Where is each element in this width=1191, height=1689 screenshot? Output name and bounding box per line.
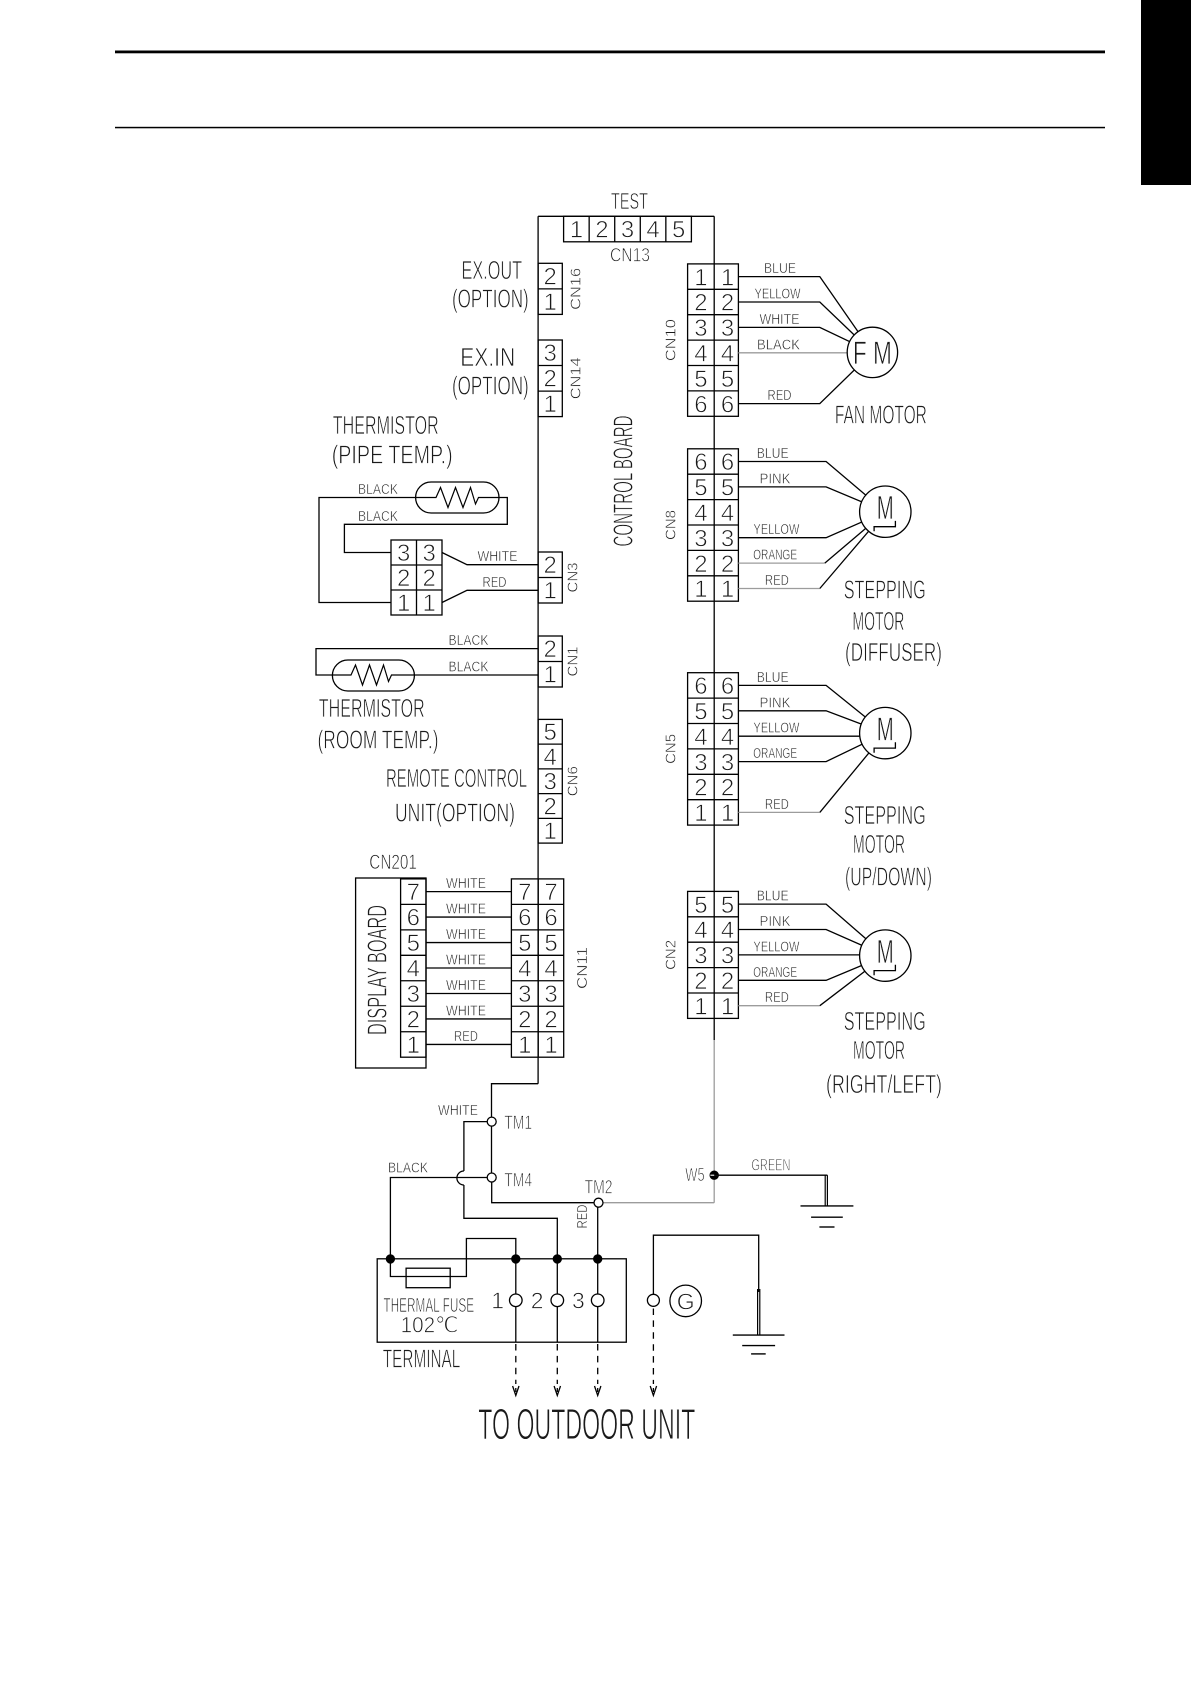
svg-text:2: 2: [531, 1288, 544, 1314]
svg-text:1: 1: [694, 576, 707, 603]
label TERMINAL: [383, 1344, 461, 1374]
svg-text:(RIGHT/LEFT): (RIGHT/LEFT): [826, 1069, 942, 1099]
svg-text:4: 4: [518, 956, 531, 983]
label CN8: [663, 510, 680, 540]
svg-text:CN11: CN11: [574, 947, 591, 989]
wire CN8 YELLOW: [738, 512, 885, 539]
label EX.OUT (OPTION): [452, 255, 529, 314]
svg-text:M: M: [877, 489, 894, 526]
svg-text:BLUE: BLUE: [757, 445, 789, 462]
chassis ground: [733, 1289, 785, 1354]
svg-text:2: 2: [694, 968, 707, 995]
wire TM1 to TM4: [491, 1126, 493, 1173]
svg-text:5: 5: [721, 892, 734, 919]
wire pipe thermistor BLACK lower: [344, 498, 507, 553]
svg-text:5: 5: [721, 699, 734, 726]
svg-text:5: 5: [694, 892, 707, 919]
svg-text:1: 1: [544, 289, 557, 316]
svg-text:3: 3: [407, 981, 420, 1008]
label CN2: [663, 940, 680, 970]
svg-text:WHITE: WHITE: [446, 926, 486, 943]
svg-text:BLACK: BLACK: [757, 336, 800, 353]
svg-text:5: 5: [544, 719, 557, 746]
svg-text:3: 3: [544, 340, 557, 367]
svg-text:5: 5: [721, 475, 734, 502]
wire CN5 ORANGE: [738, 733, 885, 762]
svg-text:1: 1: [721, 576, 734, 603]
terminal TM2: [585, 1178, 613, 1208]
connector CN10: [688, 264, 739, 418]
svg-text:TM4: TM4: [504, 1170, 532, 1191]
svg-text:3: 3: [721, 525, 734, 552]
label STEPPING MOTOR (UP/DOWN): [844, 800, 932, 892]
wire CN201-1 RED to CN11: [426, 1028, 511, 1045]
label CN6: [565, 766, 582, 796]
label CN14: [568, 357, 585, 399]
svg-text:2: 2: [694, 775, 707, 802]
svg-text:THERMISTOR: THERMISTOR: [319, 693, 425, 723]
wire thermal fuse loop: [390, 1239, 515, 1277]
wire CN201-6 WHITE to CN11: [426, 901, 511, 918]
wire BLACK to TM4 and terminal 1: [388, 1160, 487, 1259]
svg-text:4: 4: [407, 956, 420, 983]
label DISPLAY BOARD: [362, 905, 393, 1035]
svg-text:BLUE: BLUE: [757, 888, 789, 905]
svg-text:102℃: 102℃: [401, 1313, 459, 1338]
svg-text:TEST: TEST: [611, 188, 648, 214]
pipe thermistor plug connector: [391, 540, 442, 617]
wire WHITE plug to CN3-2: [442, 548, 538, 565]
label CN3: [565, 563, 582, 593]
svg-text:PINK: PINK: [760, 913, 791, 930]
wire ground post to chassis ground: [653, 1235, 758, 1294]
svg-text:WHITE: WHITE: [478, 548, 518, 565]
svg-text:2: 2: [544, 552, 557, 579]
svg-text:PINK: PINK: [760, 694, 791, 711]
svg-text:1: 1: [407, 1032, 420, 1059]
wire CN2 RED: [738, 956, 885, 1007]
svg-text:PINK: PINK: [760, 470, 791, 487]
ground (green wire): [801, 1175, 854, 1227]
svg-text:MOTOR: MOTOR: [853, 829, 905, 859]
svg-text:2: 2: [721, 968, 734, 995]
svg-text:BLACK: BLACK: [449, 659, 489, 676]
svg-text:3: 3: [694, 943, 707, 970]
terminal TM4: [487, 1170, 532, 1191]
label WHITE near TM1: [438, 1102, 478, 1119]
svg-text:STEPPING: STEPPING: [844, 575, 926, 605]
svg-text:6: 6: [518, 905, 531, 932]
svg-text:1: 1: [694, 264, 707, 291]
label EX.IN (OPTION): [452, 342, 529, 401]
svg-text:(DIFFUSER): (DIFFUSER): [845, 637, 942, 667]
wire CN2 ORANGE: [738, 956, 885, 981]
connector CN2: [688, 891, 739, 1020]
wire RED TM2 to terminal 3: [574, 1204, 598, 1259]
wire pipe thermistor BLACK upper: [319, 481, 416, 603]
svg-text:1: 1: [544, 662, 557, 689]
junction dot terminal L: [386, 1255, 394, 1263]
svg-text:RED: RED: [574, 1204, 591, 1228]
wire board to TM1: [492, 1084, 539, 1117]
svg-text:3: 3: [694, 749, 707, 776]
svg-text:YELLOW: YELLOW: [755, 286, 802, 303]
svg-text:STEPPING: STEPPING: [844, 1006, 926, 1036]
svg-text:(PIPE TEMP.): (PIPE TEMP.): [332, 440, 453, 470]
svg-text:4: 4: [694, 724, 707, 751]
svg-text:UNIT(OPTION): UNIT(OPTION): [395, 798, 515, 828]
stepping motor symbol near CN2: [860, 930, 911, 981]
label CONTROL BOARD: [608, 416, 639, 547]
connector CN5: [688, 673, 739, 827]
svg-text:3: 3: [397, 540, 410, 567]
label TO OUTDOOR UNIT: [478, 1400, 695, 1449]
stepping motor symbol near CN8: [860, 486, 911, 537]
wire CN5 RED: [738, 733, 885, 813]
svg-text:THERMISTOR: THERMISTOR: [333, 410, 439, 440]
svg-text:CN14: CN14: [568, 357, 585, 399]
svg-text:1: 1: [397, 590, 410, 617]
wire WHITE TM1 branch to terminal 2: [457, 1122, 557, 1259]
svg-text:6: 6: [694, 391, 707, 418]
stepping motor symbol near CN5: [860, 707, 911, 758]
junction dot terminal 3: [594, 1255, 602, 1263]
wire CN2 PINK: [738, 913, 885, 956]
wire CN10-1 BLUE to fan motor: [738, 260, 872, 352]
svg-text:CN2: CN2: [663, 940, 680, 970]
fan motor FM: [847, 327, 897, 377]
label THERMISTOR (PIPE TEMP.): [332, 410, 453, 470]
wire CN10-4 BLACK to fan motor (gray): [738, 336, 872, 353]
thermal fuse F1: [406, 1268, 450, 1288]
wire CN5 PINK: [738, 694, 885, 733]
label THERMAL FUSE 102C: [383, 1295, 474, 1338]
svg-text:3: 3: [544, 769, 557, 796]
svg-text:4: 4: [721, 724, 734, 751]
wire CN201-5 WHITE to CN11: [426, 926, 511, 943]
wire CN5 YELLOW: [738, 720, 872, 737]
label CN5: [663, 734, 680, 764]
svg-text:3: 3: [721, 749, 734, 776]
svg-text:2: 2: [544, 263, 557, 290]
svg-text:6: 6: [721, 391, 734, 418]
svg-text:CN8: CN8: [663, 510, 680, 540]
svg-text:6: 6: [407, 905, 420, 932]
svg-text:1: 1: [544, 1032, 557, 1059]
earth symbol G: [670, 1285, 702, 1317]
svg-text:RED: RED: [768, 387, 792, 404]
svg-text:EX.OUT: EX.OUT: [462, 255, 523, 285]
label THERMISTOR (ROOM TEMP.): [318, 693, 439, 755]
black edge tab: [1141, 0, 1191, 185]
svg-text:2: 2: [518, 1006, 531, 1033]
svg-text:4: 4: [694, 917, 707, 944]
svg-text:TERMINAL: TERMINAL: [383, 1344, 461, 1374]
control board left edge wire: [537, 216, 539, 1083]
wire CN10-3 WHITE to fan motor: [738, 311, 872, 353]
svg-text:5: 5: [694, 699, 707, 726]
svg-text:4: 4: [544, 956, 557, 983]
svg-text:BLACK: BLACK: [388, 1160, 428, 1177]
svg-text:1: 1: [491, 1288, 504, 1314]
wire CN2 BLUE: [738, 888, 885, 956]
svg-text:YELLOW: YELLOW: [753, 938, 800, 955]
junction W5: [685, 1165, 718, 1185]
svg-text:RED: RED: [454, 1028, 478, 1045]
terminal block box: [377, 1259, 626, 1342]
terminal post 1: [491, 1259, 522, 1342]
svg-text:6: 6: [694, 449, 707, 476]
svg-text:RED: RED: [765, 572, 789, 589]
page header rule top: [115, 51, 1105, 54]
svg-text:BLACK: BLACK: [358, 481, 398, 498]
svg-text:7: 7: [518, 879, 531, 906]
svg-text:6: 6: [694, 673, 707, 700]
label CN16: [568, 268, 585, 310]
svg-text:6: 6: [721, 673, 734, 700]
svg-text:REMOTE CONTROL: REMOTE CONTROL: [386, 763, 527, 793]
svg-text:ORANGE: ORANGE: [753, 964, 797, 981]
label CN201: [369, 851, 417, 874]
svg-text:ORANGE: ORANGE: [753, 745, 797, 762]
svg-text:WHITE: WHITE: [446, 977, 486, 994]
thermistor (pipe temp.) symbol: [416, 482, 499, 513]
svg-text:6: 6: [544, 905, 557, 932]
svg-text:2: 2: [407, 1006, 420, 1033]
svg-text:2: 2: [721, 290, 734, 317]
wire GREEN W5 to ground: [714, 1156, 827, 1176]
svg-text:TO OUTDOOR UNIT: TO OUTDOOR UNIT: [478, 1400, 695, 1449]
svg-text:G: G: [677, 1288, 695, 1314]
svg-text:4: 4: [694, 500, 707, 527]
svg-text:GREEN: GREEN: [751, 1156, 790, 1175]
svg-text:CN3: CN3: [565, 563, 582, 593]
svg-text:4: 4: [721, 917, 734, 944]
terminal post 3: [572, 1259, 604, 1342]
wire CN10-6 RED to fan motor: [738, 352, 872, 404]
terminal TM1: [487, 1113, 532, 1134]
label TEST: [611, 188, 648, 214]
connector CN14: [538, 340, 562, 418]
wire CN5 BLUE: [738, 669, 885, 733]
svg-text:2: 2: [397, 565, 410, 592]
label STEPPING MOTOR (RIGHT/LEFT): [826, 1006, 942, 1099]
svg-text:1: 1: [721, 264, 734, 291]
label REMOTE CONTROL UNIT(OPTION): [386, 763, 527, 828]
svg-text:RED: RED: [483, 574, 507, 591]
svg-text:5: 5: [544, 930, 557, 957]
svg-text:3: 3: [621, 217, 634, 244]
svg-text:5: 5: [672, 217, 685, 244]
label STEPPING MOTOR (DIFFUSER): [844, 575, 942, 667]
svg-text:WHITE: WHITE: [760, 311, 800, 328]
label CN11: [574, 947, 591, 989]
svg-text:6: 6: [721, 449, 734, 476]
svg-text:WHITE: WHITE: [446, 875, 486, 892]
svg-text:2: 2: [721, 775, 734, 802]
svg-text:F M: F M: [853, 335, 892, 371]
junction dot terminal 2: [553, 1255, 561, 1263]
svg-text:TM1: TM1: [504, 1113, 532, 1134]
svg-text:CN16: CN16: [568, 268, 585, 310]
svg-text:3: 3: [423, 540, 436, 567]
wire CN201-2 WHITE to CN11: [426, 1002, 511, 1019]
svg-text:RED: RED: [765, 796, 789, 813]
svg-text:5: 5: [518, 930, 531, 957]
svg-text:2: 2: [694, 290, 707, 317]
svg-text:2: 2: [544, 365, 557, 392]
connector CN1: [538, 636, 562, 689]
svg-text:CN5: CN5: [663, 734, 680, 764]
label CN13: [610, 246, 650, 267]
svg-text:WHITE: WHITE: [446, 1002, 486, 1019]
svg-text:MOTOR: MOTOR: [853, 1035, 905, 1065]
svg-text:BLACK: BLACK: [358, 508, 398, 525]
svg-text:5: 5: [721, 366, 734, 393]
svg-text:2: 2: [721, 551, 734, 578]
svg-text:BLACK: BLACK: [449, 632, 489, 649]
svg-text:ORANGE: ORANGE: [753, 547, 797, 564]
connector CN201 pins: [401, 879, 426, 1059]
svg-text:MOTOR: MOTOR: [852, 606, 904, 636]
svg-text:WHITE: WHITE: [446, 952, 486, 969]
svg-text:3: 3: [721, 943, 734, 970]
svg-text:1: 1: [518, 1032, 531, 1059]
svg-text:1: 1: [694, 993, 707, 1020]
wire CN8 ORANGE: [738, 512, 885, 564]
wire RED plug to CN3-1: [442, 574, 538, 603]
dashed lead 1 to outdoor unit: [513, 1344, 519, 1396]
connector CN11: [511, 879, 563, 1059]
wire CN10-2 YELLOW to fan motor: [738, 286, 872, 353]
svg-text:1: 1: [721, 800, 734, 827]
dashed lead 2 to outdoor unit: [554, 1344, 560, 1396]
svg-text:2: 2: [544, 793, 557, 820]
svg-text:3: 3: [572, 1288, 585, 1314]
board right edge lower segment (gray): [713, 1040, 715, 1203]
junction dot terminal 1: [512, 1255, 520, 1263]
wire CN8 PINK: [738, 470, 885, 511]
wire room thermistor BLACK lower to CN1-1: [414, 659, 538, 676]
svg-text:DISPLAY BOARD: DISPLAY BOARD: [362, 905, 393, 1035]
svg-text:2: 2: [544, 636, 557, 663]
svg-text:W5: W5: [685, 1165, 704, 1185]
svg-text:4: 4: [646, 217, 659, 244]
svg-text:WHITE: WHITE: [446, 901, 486, 918]
control board top edge wire: [538, 215, 714, 217]
svg-text:YELLOW: YELLOW: [753, 720, 800, 737]
svg-text:CN201: CN201: [369, 851, 417, 874]
svg-text:2: 2: [423, 565, 436, 592]
svg-text:CN1: CN1: [565, 647, 582, 677]
thermistor (room temp.) symbol: [332, 660, 414, 691]
control board right edge wire: [713, 216, 715, 1040]
dashed lead 3 to outdoor unit: [595, 1344, 601, 1396]
svg-text:2: 2: [544, 1006, 557, 1033]
svg-text:M: M: [877, 711, 894, 748]
svg-text:CN13: CN13: [610, 246, 650, 267]
svg-text:(ROOM TEMP.): (ROOM TEMP.): [318, 725, 439, 755]
svg-text:1: 1: [544, 578, 557, 605]
connector CN16: [538, 263, 562, 316]
svg-text:3: 3: [721, 315, 734, 342]
svg-text:3: 3: [694, 315, 707, 342]
svg-text:1: 1: [544, 818, 557, 845]
svg-text:BLUE: BLUE: [757, 669, 789, 686]
svg-text:1: 1: [570, 217, 583, 244]
wire CN2 YELLOW: [738, 938, 872, 955]
svg-text:(UP/DOWN): (UP/DOWN): [845, 862, 932, 892]
svg-text:3: 3: [518, 981, 531, 1008]
wire CN201-7 WHITE to CN11: [426, 875, 511, 892]
svg-text:FAN MOTOR: FAN MOTOR: [835, 399, 927, 429]
connector CN6: [538, 719, 562, 845]
svg-text:RED: RED: [765, 989, 789, 1006]
svg-text:4: 4: [694, 341, 707, 368]
svg-text:YELLOW: YELLOW: [753, 521, 800, 538]
svg-text:1: 1: [544, 391, 557, 418]
svg-text:2: 2: [595, 217, 608, 244]
svg-text:1: 1: [423, 590, 436, 617]
connector CN13 (TEST): [564, 216, 692, 243]
svg-text:(OPTION): (OPTION): [452, 284, 529, 314]
page header rule bottom: [115, 127, 1105, 129]
label FAN MOTOR: [835, 399, 927, 429]
svg-text:5: 5: [694, 366, 707, 393]
connector CN3: [538, 552, 562, 605]
svg-text:1: 1: [721, 993, 734, 1020]
svg-text:BLUE: BLUE: [764, 260, 796, 277]
svg-text:3: 3: [544, 981, 557, 1008]
svg-text:STEPPING: STEPPING: [844, 800, 926, 830]
display board box: [356, 878, 426, 1068]
connector CN8: [688, 449, 739, 603]
svg-text:4: 4: [544, 744, 557, 771]
ground post circle: [647, 1294, 659, 1306]
wire CN8 BLUE: [738, 445, 885, 512]
svg-text:5: 5: [407, 930, 420, 957]
wire CN201-3 WHITE to CN11: [426, 977, 511, 994]
svg-text:1: 1: [694, 800, 707, 827]
dashed ground lead to outdoor unit: [650, 1309, 656, 1396]
svg-text:CN6: CN6: [565, 766, 582, 796]
svg-text:4: 4: [721, 341, 734, 368]
svg-text:2: 2: [694, 551, 707, 578]
svg-text:3: 3: [694, 525, 707, 552]
wire CN201-4 WHITE to CN11: [426, 952, 511, 969]
svg-text:7: 7: [544, 879, 557, 906]
wire TM4 to TM2: [492, 1182, 594, 1203]
wire TM2 to W5 (gray): [603, 1202, 714, 1204]
wire CN8 RED: [738, 512, 885, 589]
wire room thermistor BLACK upper to CN1-2: [316, 632, 538, 675]
svg-text:TM2: TM2: [585, 1178, 613, 1199]
svg-text:5: 5: [694, 475, 707, 502]
svg-text:CONTROL BOARD: CONTROL BOARD: [608, 416, 639, 547]
label CN1: [565, 647, 582, 677]
label CN10: [663, 319, 680, 361]
terminal post 2: [531, 1259, 564, 1342]
svg-text:WHITE: WHITE: [438, 1102, 478, 1119]
svg-text:(OPTION): (OPTION): [452, 371, 529, 401]
svg-text:7: 7: [407, 879, 420, 906]
svg-text:4: 4: [721, 500, 734, 527]
svg-text:CN10: CN10: [663, 319, 680, 361]
svg-text:M: M: [877, 933, 894, 970]
svg-text:EX.IN: EX.IN: [460, 342, 515, 372]
